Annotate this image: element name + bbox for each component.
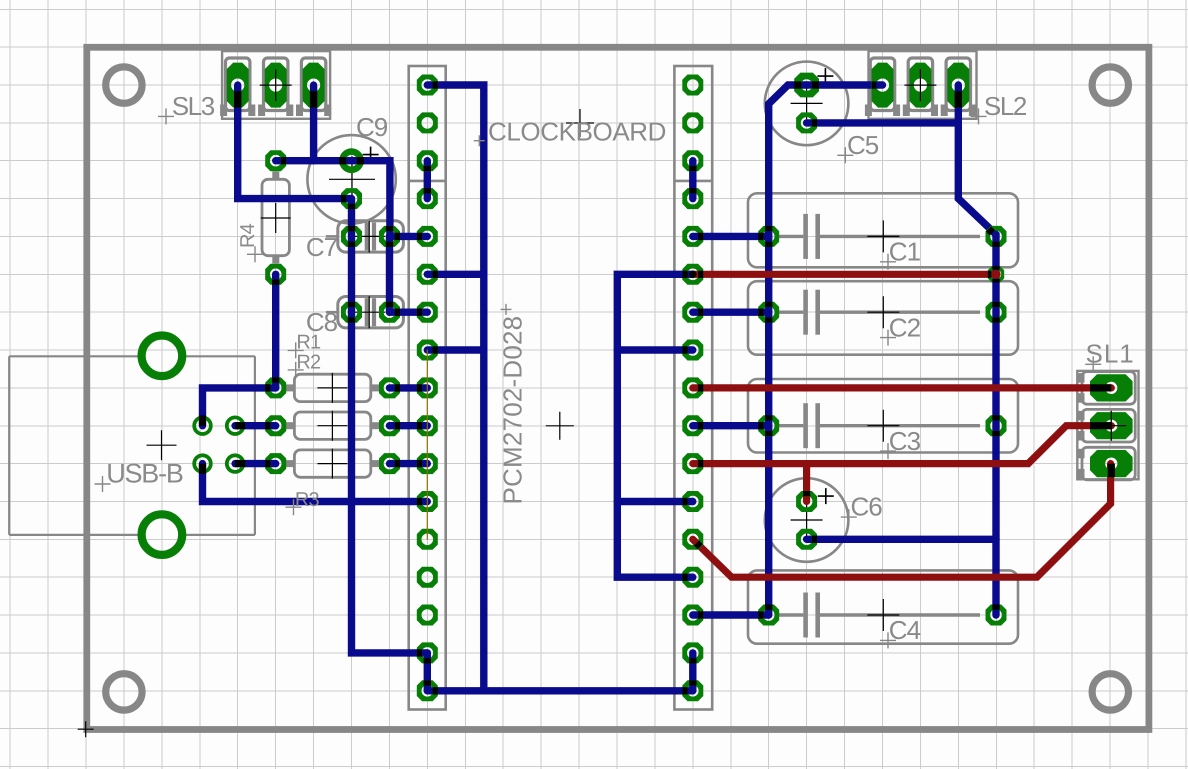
USB-B origin cross: [147, 430, 177, 460]
board corner origin cross: [78, 721, 94, 737]
connector SL2 silkscreen: [865, 51, 977, 119]
wire: left header pad rows 2-3: [424, 161, 431, 199]
label C5 origin cross: [837, 147, 853, 163]
wire: USB pad1 up and right to R1 left pad: [203, 388, 276, 426]
label CLOCKBOARD origin cross: [474, 135, 485, 146]
left header pad 3: [417, 150, 438, 171]
middle header pad 2: [682, 112, 703, 133]
left header pad 2: [417, 112, 438, 133]
middle header pad 14: [682, 567, 703, 588]
left header pad 13: [417, 529, 438, 550]
C3 left pad: [758, 415, 779, 436]
wire: C7 right pad down to C8 right pad: [386, 236, 393, 312]
wire: USB pad4 to R3 left pad: [235, 460, 276, 467]
svg-text:CLOCKBOARD: CLOCKBOARD: [488, 117, 666, 147]
label PCM2702-D028 origin cross: [501, 304, 512, 315]
wire: C6 minus pad right to right vertical: [807, 536, 996, 543]
C8 right pad: [379, 302, 400, 323]
resistor R3: [284, 449, 381, 479]
wire red: branch down to C6 plus pad: [803, 464, 810, 502]
wire: C9 bottom pad down through C7 left pad to C8 left pad: [348, 199, 355, 313]
resistor R4: [261, 172, 291, 264]
SL1 pad2 origin cross: [1096, 411, 1126, 441]
R4 top pad: [265, 150, 286, 171]
wire: R4 top pad through C9 top pad to C7 right pad: [276, 161, 390, 237]
left header pad 5: [417, 226, 438, 247]
middle header pad 7: [682, 302, 703, 323]
middle header pad 5: [682, 226, 703, 247]
svg-text:PCM2702-D028: PCM2702-D028: [498, 316, 528, 505]
wire: middle header row9 to C3 left pad: [693, 422, 769, 429]
wire: C5 plus pad left then down through C1-C3 left pads to C4 left pad: [769, 85, 807, 615]
wire: right vertical C1 right pad to C4 right pad: [992, 236, 999, 615]
capacitor C9 silkscreen circle: [307, 135, 395, 223]
capacitor C4 silkscreen: [748, 570, 1018, 643]
capacitor C5 plus mark: [817, 68, 833, 84]
C4 left pad: [758, 605, 779, 626]
airwire: left header rows 7-12: [426, 350, 428, 539]
origin cross top middle: [566, 109, 594, 137]
C9 bottom pad: [341, 188, 362, 209]
label R4 origin cross: [247, 246, 263, 262]
label C4 origin cross: [880, 632, 896, 648]
C1 left pad: [758, 226, 779, 247]
middle header pad 10: [682, 415, 703, 436]
SL2 pad2 origin cross: [904, 69, 936, 101]
C6 plus pad: [796, 491, 817, 512]
left header pad 4: [417, 188, 438, 209]
svg-text:C9: C9: [356, 112, 388, 142]
middle header pad 4: [682, 188, 703, 209]
wire: USB pad3 down and right to left header row11: [203, 464, 428, 502]
C5 minus pad: [796, 112, 817, 133]
middle header pad 13: [682, 529, 703, 550]
capacitor C5 origin cross: [791, 87, 823, 119]
middle header pad 11: [682, 453, 703, 474]
capacitor C5 silkscreen circle: [765, 62, 849, 146]
capacitor C1 silkscreen: [748, 193, 1018, 267]
label C1 origin cross: [880, 254, 896, 270]
capacitor C6 origin cross: [791, 504, 823, 536]
wire: middle header rows 15-16: [689, 653, 696, 691]
label C3 origin cross: [880, 443, 896, 459]
left header pad 10: [417, 415, 438, 436]
R2 left pad: [265, 415, 286, 436]
wire red: middle header row10 to SL1 pad2 with jog: [693, 426, 1112, 464]
USB-B pad 3: [192, 453, 212, 473]
C9 top pad: [339, 148, 364, 173]
label R2 origin cross: [288, 362, 304, 378]
label SL3 origin cross: [158, 108, 174, 124]
middle header pad 9: [682, 377, 703, 398]
C7 left pad: [341, 226, 362, 247]
C8 left pad: [341, 302, 362, 323]
wire: left bus vertical with stubs to middle header: [617, 274, 693, 577]
SL3 pad 1: [227, 63, 249, 108]
wire: R3 right pad to header: [390, 460, 428, 467]
origin cross board middle: [546, 412, 574, 440]
resistor R2: [284, 411, 381, 441]
wire: C8 left pad long trace down then right to header row15: [352, 312, 428, 653]
left header pad 14: [417, 567, 438, 588]
label SL2 origin cross: [971, 108, 987, 124]
middle header pad 17: [682, 680, 703, 701]
capacitor C3 silkscreen: [748, 379, 1018, 453]
middle header pad 12: [682, 491, 703, 512]
R2 right pad: [379, 415, 400, 436]
label R3 origin cross: [286, 499, 302, 515]
C7 right pad: [379, 226, 400, 247]
USB-B pad 4: [225, 453, 245, 473]
left header pad 8: [417, 340, 438, 361]
capacitor C9 plus mark: [363, 147, 379, 163]
wire red: middle header row12 diagonal to SL1 pad3: [693, 464, 1111, 578]
middle header pad 15: [682, 605, 703, 626]
wire: header pad row5 stub: [427, 271, 484, 278]
wire: C5 minus pad right to SL2 pad3 riser: [807, 119, 959, 126]
svg-text:C7: C7: [306, 232, 338, 262]
wire: C7 right pad to header pad: [390, 233, 428, 240]
USB-B pad 2: [225, 416, 245, 436]
wire: long trace from left header pad1 down right side of header: [427, 85, 484, 691]
SL1 pad 2: [1090, 412, 1133, 439]
capacitor C6 plus mark: [818, 488, 834, 504]
mounting hole top-left: [106, 67, 142, 103]
SL2 pad 3: [947, 63, 969, 108]
label C2 origin cross: [880, 330, 896, 346]
capacitor C9 origin cross: [329, 156, 375, 202]
R1 right pad: [379, 377, 400, 398]
wire: bus stub row7: [617, 346, 693, 353]
left header pad 17: [417, 680, 438, 701]
capacitor C8 silkscreen: [326, 296, 404, 328]
mounting hole bottom-left: [106, 674, 142, 710]
USB-B connector silkscreen: [9, 356, 255, 535]
wire red: middle header row8 to SL1 pad1: [693, 384, 1112, 391]
SL2 pad 1: [872, 63, 894, 108]
pin header column left silkscreen: [409, 66, 446, 710]
mounting hole bottom-right: [1092, 674, 1128, 710]
SL1 pad 3: [1090, 450, 1133, 477]
middle header pad 6: [682, 264, 703, 285]
wire: C8 right pad to header pad: [390, 309, 428, 316]
wire red: middle header row5 to via: [693, 271, 996, 278]
middle header pad 1: [682, 75, 703, 96]
SL1 pad 1: [1090, 374, 1133, 401]
USB-B pad 1: [192, 416, 212, 436]
R3 left pad: [265, 453, 286, 474]
capacitor C7 silkscreen: [326, 220, 404, 252]
wire: middle header row6 to C2 left pad: [693, 309, 769, 316]
C4 right pad: [986, 605, 1007, 626]
left header pad 11: [417, 453, 438, 474]
wire: R2 right pad to header: [390, 422, 428, 429]
C6 minus pad: [796, 529, 817, 550]
C5 plus pad: [794, 73, 819, 98]
wire: left header rows 15-16: [424, 653, 431, 691]
wire: R4 bottom pad down to R1 left pad: [272, 274, 279, 388]
wire: USB pad2 to R2 left pad: [235, 422, 276, 429]
wire: middle header row4 to C1 left pad: [693, 233, 769, 240]
via (red/blue junction right of C1): [988, 266, 1004, 282]
left header pad 16: [417, 642, 438, 663]
C2 left pad: [758, 302, 779, 323]
connector SL1 silkscreen: [1077, 371, 1138, 480]
capacitor C6 silkscreen circle: [765, 478, 849, 562]
wire: SL2 pad3 down diagonal to C1 right pad: [958, 85, 996, 236]
resistor R1: [284, 373, 381, 403]
left header pad 9: [417, 377, 438, 398]
connector SL3 silkscreen: [220, 51, 331, 119]
capacitor C2 silkscreen: [748, 281, 1018, 355]
board outline (dimension layer): [87, 47, 1149, 729]
middle header pad 3: [682, 150, 703, 171]
wire: SL3 pad1 to C9 bottom pad: [238, 85, 352, 199]
R4 bottom pad: [265, 264, 286, 285]
R1 left pad: [265, 377, 286, 398]
left header pad 6: [417, 264, 438, 285]
wire: bus stub row11: [617, 498, 693, 505]
mounting hole top-right: [1092, 67, 1128, 103]
label SL1 origin cross: [1085, 356, 1101, 372]
middle header pad 8: [682, 340, 703, 361]
wire: middle header row14 to C4 left pad: [693, 611, 769, 618]
C1 right pad: [986, 226, 1007, 247]
left header pad 7: [417, 302, 438, 323]
USB-B shield ring bottom: [142, 514, 183, 555]
svg-text:SL2: SL2: [984, 91, 1027, 121]
label USB-B origin cross: [95, 476, 111, 492]
wire: SL3 pad3 down to R4-C9 net: [310, 85, 317, 161]
left header pad 15: [417, 605, 438, 626]
C3 right pad: [986, 415, 1007, 436]
SL3 pad2 origin cross: [260, 69, 292, 101]
svg-text:SL3: SL3: [172, 91, 215, 121]
wire: R1 right pad to header: [390, 384, 428, 391]
USB-B shield ring top: [142, 336, 183, 377]
pin header column middle silkscreen: [674, 66, 712, 710]
SL3 pad 2: [265, 63, 287, 108]
C2 right pad: [986, 302, 1007, 323]
R3 right pad: [379, 453, 400, 474]
svg-text:USB-B: USB-B: [106, 459, 183, 489]
label R1 origin cross: [288, 342, 304, 358]
SL3 pad 3: [303, 63, 325, 108]
wire: C5 plus pad to SL2 pad1: [807, 81, 883, 88]
svg-text:R4: R4: [237, 223, 259, 248]
left header pad 1: [417, 75, 438, 96]
SL2 pad 2: [909, 63, 931, 108]
label C6 origin cross: [841, 509, 857, 525]
left header pad 12: [417, 491, 438, 512]
wire: header pad row7 stub: [427, 346, 484, 353]
wire: middle header rows 2-3: [689, 161, 696, 199]
middle header pad 16: [682, 642, 703, 663]
wire: bottom bus left header to middle header: [427, 687, 693, 694]
